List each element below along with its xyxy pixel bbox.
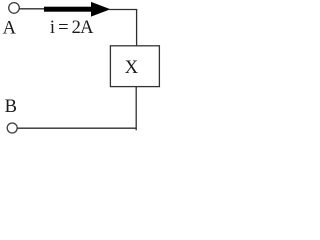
wire	[135, 87, 137, 131]
wire	[136, 9, 138, 46]
wire	[17, 127, 136, 129]
element X box	[110, 46, 159, 87]
current arrow head	[91, 2, 110, 17]
svg-text:A: A	[3, 19, 17, 39]
svg-text:i = 2A: i = 2A	[50, 18, 94, 38]
terminal B	[7, 123, 17, 133]
wire	[109, 9, 137, 11]
terminal A	[9, 3, 20, 14]
svg-text:B: B	[5, 97, 17, 117]
current arrow shaft	[44, 7, 93, 12]
svg-text:X: X	[125, 58, 139, 78]
wire	[19, 8, 45, 10]
